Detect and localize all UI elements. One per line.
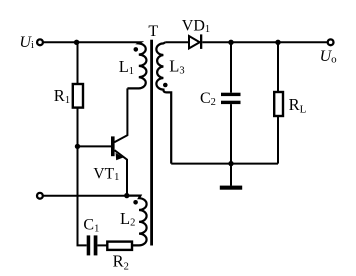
transistor VT1 collector (114, 88, 127, 142)
capacitor C1 right plate (94, 235, 98, 255)
winding L2 (127, 196, 147, 246)
transistor VT1 emitter arrow (116, 153, 124, 161)
wire RL branch bottom (277, 116, 279, 164)
svg-text:T: T (148, 23, 158, 40)
wire lower-left rail (43, 195, 127, 197)
input terminal Ui (37, 39, 43, 45)
wire L3 to diode (165, 41, 188, 43)
lower-left terminal (37, 193, 43, 199)
resistor R1 (73, 84, 83, 108)
wire C1 to R2 (97, 244, 107, 246)
diode VD1 (189, 36, 200, 48)
diode VD1 cathode bar (200, 34, 202, 49)
polarity dot L2 (133, 200, 138, 205)
transformer core (150, 40, 153, 246)
wire C2 branch top (230, 42, 232, 92)
wire junction to R1 (77, 42, 79, 84)
resistor RL (274, 92, 283, 116)
wire base (78, 145, 112, 147)
output terminal Uo (328, 39, 334, 45)
ground (230, 164, 232, 186)
wire base node down to C1 (78, 146, 87, 245)
resistor R2 (107, 242, 132, 250)
wire top-left rail (43, 42, 140, 43)
capacitor C2 top plate (221, 93, 241, 96)
capacitor C1 left plate (87, 235, 91, 255)
wire C2 branch bottom (230, 104, 232, 164)
winding L3 (156, 42, 171, 163)
wire RL branch top (277, 42, 279, 92)
polarity dot L3 (163, 83, 168, 88)
node RL top junction (275, 40, 280, 45)
node ground junction (228, 161, 233, 166)
capacitor C2 bottom plate (221, 101, 241, 104)
transistor VT1 base bar (111, 136, 115, 156)
wire top-right rail (202, 41, 327, 43)
wire R1 to base node (77, 108, 79, 147)
node top-left junction (74, 40, 79, 45)
wire bottom-right rail (171, 163, 278, 165)
winding L1 (127, 42, 146, 88)
node C2 top junction (228, 40, 233, 45)
node base junction (75, 144, 80, 149)
polarity dot L1 (134, 47, 139, 52)
node emitter junction (124, 193, 129, 198)
transistor VT1 emitter (115, 150, 128, 195)
